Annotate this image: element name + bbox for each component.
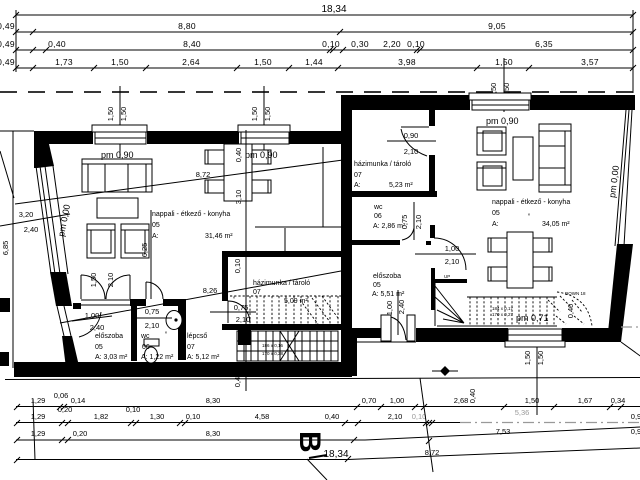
svg-text:06: 06 — [142, 344, 150, 351]
kitchen counter L — [322, 147, 324, 227]
svg-text:lépcső: lépcső — [187, 333, 207, 340]
stair R straight flight dashed — [470, 297, 554, 326]
svg-text:2,10: 2,10 — [414, 215, 423, 230]
svg-text:×: × — [165, 330, 168, 335]
dimension row bottom-3 — [16, 439, 365, 441]
svg-text:A:: A: — [354, 182, 361, 189]
svg-text:1,29: 1,29 — [31, 412, 46, 421]
svg-text:184 x 0,17: 184 x 0,17 — [492, 306, 514, 311]
wall hall/wc top seg2 — [163, 299, 186, 306]
stair R winder fan — [435, 286, 464, 323]
svg-text:0,49: 0,49 — [0, 57, 15, 67]
wall hazimunka right — [429, 110, 435, 126]
leader 8,72 — [15, 160, 343, 204]
coffee table R — [513, 137, 533, 180]
svg-text:A: 3,03 m²: A: 3,03 m² — [95, 354, 128, 361]
svg-text:6,25: 6,25 — [140, 243, 149, 258]
sofa L — [82, 159, 152, 192]
svg-text:2,10: 2,10 — [145, 321, 160, 330]
bottom left extension — [33, 399, 35, 460]
svg-text:0,14: 0,14 — [71, 396, 86, 405]
svg-text:0,90: 0,90 — [404, 131, 419, 140]
svg-text:05: 05 — [152, 222, 160, 229]
wall hazimunka bottom — [352, 191, 437, 197]
left slanted wall block — [50, 272, 72, 306]
svg-text:6,35: 6,35 — [535, 39, 553, 49]
svg-text:A: 1,22 m²: A: 1,22 m² — [141, 354, 174, 361]
top wall left wing seg3 — [289, 131, 341, 144]
svg-text:0,10: 0,10 — [322, 39, 340, 49]
svg-text:1,73: 1,73 — [55, 57, 73, 67]
svg-text:0,40: 0,40 — [234, 148, 243, 163]
toilet L — [144, 339, 159, 346]
svg-text:0,10: 0,10 — [126, 405, 141, 414]
double door threshold — [81, 299, 130, 301]
right slanted glazing — [618, 110, 629, 246]
left height dim 6,85 — [12, 131, 14, 368]
coffee table L — [97, 198, 138, 218]
svg-text:0,34: 0,34 — [611, 396, 626, 405]
stair duct — [238, 324, 251, 345]
top wall left wing seg1 — [49, 131, 93, 144]
left slanted wall block low — [62, 336, 79, 368]
wall wc/lepcso — [178, 306, 186, 360]
window W1 dim leader — [119, 86, 121, 158]
left extension line top — [15, 10, 17, 72]
neighbour wall stub A — [0, 298, 10, 312]
door hazimunka-L leaf+arc — [227, 301, 229, 323]
bottom wall entry seg — [352, 328, 382, 338]
svg-text:pm 0,71: pm 0,71 — [516, 313, 549, 323]
armchair R1 — [477, 127, 506, 155]
svg-text:2,10: 2,10 — [388, 412, 403, 421]
stair upper flight dashed — [250, 296, 338, 324]
bottom wall right wing seg2 — [562, 328, 621, 342]
svg-text:6,85: 6,85 — [1, 241, 10, 256]
svg-text:1,50: 1,50 — [263, 107, 272, 122]
svg-text:1,50: 1,50 — [523, 351, 532, 366]
svg-text:2,10: 2,10 — [445, 257, 460, 266]
svg-text:előszoba: előszoba — [373, 273, 401, 280]
svg-text:2,20: 2,20 — [383, 39, 401, 49]
neighbour wall stub B — [0, 352, 9, 366]
svg-text:0,40: 0,40 — [325, 412, 340, 421]
leader 8,26 — [60, 271, 341, 323]
svg-text:wc: wc — [373, 204, 383, 211]
svg-text:3,10: 3,10 — [234, 190, 243, 205]
dining table L — [224, 144, 252, 201]
svg-text:170 x 0,27: 170 x 0,27 — [492, 312, 514, 317]
chair L4 — [252, 180, 271, 193]
svg-text:07: 07 — [187, 344, 195, 351]
porch side wall — [341, 338, 357, 376]
svg-text:0,20: 0,20 — [73, 429, 88, 438]
dimension row top-2 (0,49 8,80 9,05) — [16, 31, 633, 33]
svg-text:4,58: 4,58 — [255, 412, 270, 421]
building line dashed — [0, 91, 640, 93]
svg-text:0,70: 0,70 — [362, 396, 377, 405]
svg-text:2,68: 2,68 — [454, 396, 469, 405]
dim line x246 — [245, 130, 247, 391]
chair R2 — [488, 267, 507, 281]
dim 6,25 — [150, 210, 152, 299]
svg-text:UP: UP — [444, 274, 450, 279]
svg-text:0,49: 0,49 — [0, 21, 15, 31]
window W4 dim leader — [536, 341, 538, 415]
svg-text:31,46 m²: 31,46 m² — [205, 233, 233, 240]
double door arcs — [81, 275, 105, 299]
svg-text:0,06: 0,06 — [54, 391, 69, 400]
svg-text:0,40: 0,40 — [566, 304, 575, 319]
svg-text:2,10: 2,10 — [404, 147, 419, 156]
svg-text:05: 05 — [373, 282, 381, 289]
svg-text:8,72: 8,72 — [196, 170, 211, 179]
svg-text:2,10: 2,10 — [106, 273, 115, 288]
ground line — [5, 378, 640, 380]
svg-text:0,75: 0,75 — [145, 307, 160, 316]
svg-text:18,34: 18,34 — [321, 4, 346, 15]
svg-text:34,05 m²: 34,05 m² — [542, 221, 570, 228]
svg-text:1,50: 1,50 — [89, 273, 98, 288]
left top corner wall — [34, 131, 54, 168]
armchair L1 — [87, 224, 115, 258]
bottom wall right wing seg1 — [416, 328, 508, 342]
chair R1 — [488, 238, 507, 252]
svg-text:A:: A: — [152, 233, 159, 240]
entry door R arc — [391, 317, 406, 340]
svg-text:0,9: 0,9 — [631, 427, 640, 436]
right slanted wall block — [607, 244, 633, 342]
svg-text:8,30: 8,30 — [206, 429, 221, 438]
top wall right wing seg1 — [352, 95, 470, 110]
double door leaves — [80, 275, 82, 299]
svg-text:B: B — [293, 431, 326, 453]
svg-text:1,50: 1,50 — [119, 107, 128, 122]
armchair R2 — [477, 162, 506, 190]
chair L1 — [205, 150, 224, 164]
wall hall-left stub — [73, 303, 81, 309]
wall wc-R right thin — [413, 202, 415, 240]
party wall — [341, 95, 352, 376]
window dim 3,20/2,40 — [0, 214, 70, 226]
svg-text:0,10: 0,10 — [233, 259, 242, 274]
dimension row bottom-4 — [16, 459, 348, 461]
door hazimunka-R arc — [401, 126, 429, 128]
svg-text:0,40: 0,40 — [233, 373, 242, 388]
svg-text:0,10: 0,10 — [186, 412, 201, 421]
svg-text:170 x 0,28: 170 x 0,28 — [262, 351, 284, 356]
svg-text:9,05: 9,05 — [488, 21, 506, 31]
svg-text:pm 0,90: pm 0,90 — [245, 150, 278, 160]
svg-text:0,10: 0,10 — [412, 412, 427, 421]
door eloszoba-nappali arc — [434, 238, 466, 270]
svg-text:A: 5,12 m²: A: 5,12 m² — [187, 354, 220, 361]
dining table R — [507, 232, 533, 288]
svg-text:1,67: 1,67 — [578, 396, 593, 405]
svg-text:1,82: 1,82 — [94, 412, 109, 421]
svg-text:házimunka / tároló: házimunka / tároló — [253, 280, 310, 287]
stair lower flight — [237, 331, 338, 361]
dimension row top-4 (0,49 1,73 1,50 2,64 1,50 1,44 3,98 1,50 3,57) — [16, 67, 633, 69]
top wall right wing seg2 — [530, 95, 635, 110]
wall eloszoba/wc — [131, 306, 137, 361]
svg-text:×: × — [346, 151, 349, 156]
svg-text:07: 07 — [253, 289, 261, 296]
svg-text:5,09 m²: 5,09 m² — [284, 298, 308, 305]
svg-text:0,9: 0,9 — [631, 412, 640, 421]
svg-text:7,53: 7,53 — [496, 427, 511, 436]
svg-text:3,57: 3,57 — [581, 57, 599, 67]
stair R curve dashed — [557, 292, 592, 326]
svg-text:8,40: 8,40 — [183, 39, 201, 49]
svg-text:2,64: 2,64 — [182, 57, 200, 67]
window W3 — [469, 93, 531, 100]
window W3 dim leader — [503, 58, 505, 112]
window W2 dim leader — [263, 86, 265, 160]
svg-text:8,80: 8,80 — [178, 21, 196, 31]
dimension row top-3 (0,49 0,40 8,40 0,10 0,30 2,20 0,10 6,35) — [16, 49, 633, 51]
svg-text:06: 06 — [374, 213, 382, 220]
svg-text:05: 05 — [95, 344, 103, 351]
wall nappali/hazimunka horiz — [222, 251, 341, 257]
window W2 — [238, 125, 290, 132]
window W1 — [92, 125, 147, 132]
svg-text:0,40: 0,40 — [468, 389, 477, 404]
svg-text:1,00: 1,00 — [385, 301, 394, 316]
top wall left wing seg2 — [147, 131, 239, 144]
svg-text:DOWN 18: DOWN 18 — [565, 291, 586, 296]
svg-text:5,23 m²: 5,23 m² — [389, 182, 413, 189]
stair cross — [280, 331, 299, 361]
corner leader — [621, 342, 640, 358]
svg-text:8,72: 8,72 — [425, 448, 440, 457]
entry door R leaf2 — [407, 315, 415, 341]
chair R4 — [533, 267, 552, 281]
svg-text:1,50: 1,50 — [525, 396, 540, 405]
stair R first tread band — [435, 279, 467, 283]
svg-text:5,36: 5,36 — [515, 408, 530, 417]
wall eloszoba/nappali vert — [430, 225, 435, 238]
svg-text:×: × — [528, 212, 531, 217]
svg-text:0,30: 0,30 — [351, 39, 369, 49]
left slanted glazing — [36, 166, 51, 274]
svg-text:pm 0,90: pm 0,90 — [101, 150, 134, 160]
svg-text:8,26: 8,26 — [203, 286, 218, 295]
svg-text:A: 2,86 m²: A: 2,86 m² — [373, 223, 406, 230]
chair R3 — [533, 238, 552, 252]
svg-text:pm 0,90: pm 0,90 — [486, 116, 519, 126]
svg-text:előszoba: előszoba — [95, 333, 123, 340]
svg-text:1,00: 1,00 — [445, 244, 460, 253]
svg-text:1,50: 1,50 — [250, 107, 259, 122]
wall wc-R bottom — [352, 240, 400, 245]
svg-text:nappali - étkező - konyha: nappali - étkező - konyha — [152, 211, 230, 218]
basin L — [166, 311, 182, 330]
svg-text:1,50: 1,50 — [536, 351, 545, 366]
entry door R leaf1 — [381, 315, 391, 341]
door wc-R arc — [402, 228, 414, 240]
chair L3 — [252, 150, 271, 164]
dimension row bottom-2 — [16, 422, 460, 424]
svg-text:1,30: 1,30 — [150, 412, 165, 421]
svg-text:0,10: 0,10 — [407, 39, 425, 49]
svg-text:05: 05 — [492, 210, 500, 217]
svg-text:1,29: 1,29 — [31, 429, 46, 438]
svg-text:0,49: 0,49 — [0, 39, 15, 49]
svg-text:0,40: 0,40 — [48, 39, 66, 49]
svg-text:3,98: 3,98 — [398, 57, 416, 67]
dimension row bottom-1 — [16, 406, 640, 408]
svg-text:wc: wc — [140, 333, 150, 340]
svg-text:1,44: 1,44 — [305, 57, 323, 67]
svg-text:nappali - étkező - konyha: nappali - étkező - konyha — [492, 199, 570, 206]
svg-text:A:: A: — [492, 221, 499, 228]
sofa R — [539, 124, 571, 192]
svg-text:07: 07 — [354, 172, 362, 179]
porch slab — [357, 341, 416, 343]
svg-text:1,50: 1,50 — [106, 107, 115, 122]
left entry door jambs — [57, 306, 64, 336]
svg-text:18,34: 18,34 — [323, 449, 348, 460]
stair break marks — [300, 296, 338, 324]
svg-text:×: × — [233, 295, 236, 300]
svg-text:2,40: 2,40 — [90, 323, 105, 332]
stair mid wall — [222, 324, 341, 330]
survey diamond — [440, 366, 450, 376]
svg-text:3,20: 3,20 — [19, 210, 34, 219]
dimension row top-1 (18,34) — [16, 14, 633, 16]
svg-text:2,10: 2,10 — [236, 315, 251, 324]
svg-text:1,00: 1,00 — [390, 396, 405, 405]
wall stair left — [431, 268, 435, 310]
wall hall/wc top seg1 — [130, 299, 146, 306]
svg-text:0,20: 0,20 — [58, 405, 73, 414]
svg-text:házimunka / tároló: házimunka / tároló — [354, 161, 411, 168]
chair L2 — [205, 180, 224, 193]
wall nappali/hazimunka vert — [222, 251, 228, 301]
svg-text:8,30: 8,30 — [206, 396, 221, 405]
svg-text:186 x 0,16: 186 x 0,16 — [262, 343, 284, 348]
left entry door arc — [79, 312, 101, 337]
door wc-L leaf+arc — [145, 282, 147, 299]
svg-text:2,40: 2,40 — [24, 225, 39, 234]
svg-text:0,75: 0,75 — [234, 303, 249, 312]
armchair L2 — [121, 224, 149, 258]
svg-text:A: 5,51 m²: A: 5,51 m² — [372, 291, 405, 298]
svg-text:1,50: 1,50 — [111, 57, 129, 67]
bottom slanted extension — [420, 378, 433, 472]
svg-text:1,50: 1,50 — [254, 57, 272, 67]
window W4 — [508, 329, 562, 341]
bottom wall left wing — [14, 362, 352, 377]
